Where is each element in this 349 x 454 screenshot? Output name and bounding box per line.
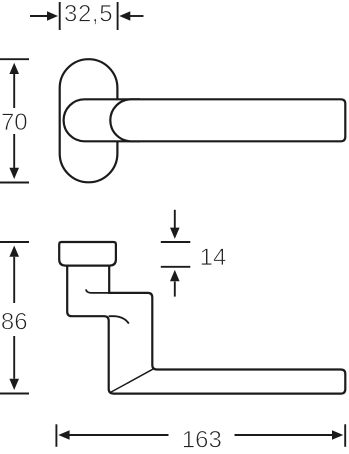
svg-text:163: 163 bbox=[182, 427, 222, 454]
svg-text:70: 70 bbox=[1, 109, 28, 136]
svg-text:86: 86 bbox=[1, 309, 28, 336]
svg-text:32,5: 32,5 bbox=[64, 1, 113, 28]
svg-text:14: 14 bbox=[200, 244, 227, 271]
